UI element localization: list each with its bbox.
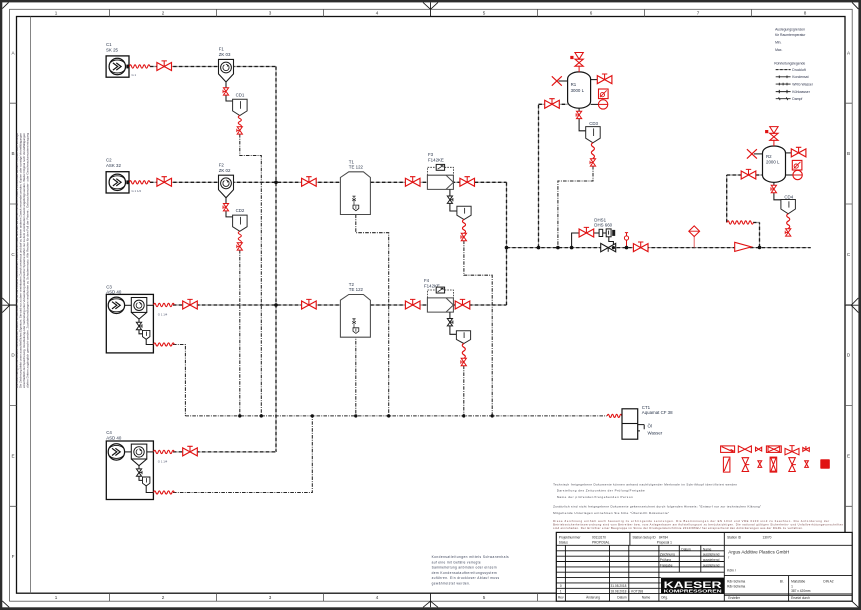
svg-text:E: E [11, 454, 14, 459]
wire row3 rise to header [506, 248, 508, 305]
svg-text:3: 3 [269, 595, 272, 600]
svg-text:Station Setup ID: Station Setup ID [633, 536, 657, 540]
valve CD4 outlet [785, 229, 791, 236]
wire F1 drain [226, 82, 233, 101]
wire air manifold vertical [275, 67, 277, 452]
svg-text:ausstehend: ausstehend [703, 558, 720, 562]
svg-text:Technisch freigegebene Dokumen: Technisch freigegebene Dokumente können … [553, 482, 737, 486]
svg-text:/: / [728, 555, 729, 559]
svg-text:G 1 1/4: G 1 1/4 [158, 312, 168, 316]
compressor C1 [106, 42, 137, 77]
legend muffler [821, 460, 829, 468]
flow flag symbol [689, 226, 700, 248]
node header row2/3 [505, 246, 509, 250]
svg-text:F2: F2 [219, 162, 225, 167]
svg-text:DIN A2: DIN A2 [823, 580, 833, 584]
wire F4 drain [450, 312, 457, 334]
svg-text:Freigabe: Freigabe [660, 563, 673, 567]
svg-text:Ersetzt durch: Ersetzt durch [791, 596, 810, 600]
left margin note column [15, 17, 31, 594]
node condensate T2 [354, 414, 357, 417]
wire row2 air line C2-F2-T1 [150, 181, 340, 183]
svg-text:ZK 03: ZK 03 [219, 52, 231, 57]
svg-text:CD4: CD4 [784, 195, 793, 200]
node manifold row2 [274, 181, 278, 185]
svg-text:WRG Wasser: WRG Wasser [792, 82, 813, 86]
node condensate CD1 [260, 414, 263, 417]
node header R1 riser [537, 246, 541, 250]
node condensate T1 [387, 414, 390, 417]
svg-text:Orig.: Orig. [661, 595, 668, 599]
KAESER logo [661, 578, 724, 594]
svg-text:2: 2 [162, 595, 165, 600]
wire R2 left stub [754, 153, 763, 155]
hose C2 outlet [129, 181, 150, 184]
line filter F4 [424, 278, 453, 312]
node manifold row3 [274, 303, 278, 307]
wire F4 condensate drop [463, 366, 465, 416]
node header sensor [625, 246, 629, 250]
svg-text:R1: R1 [571, 82, 577, 87]
svg-text:a_KOT398: a_KOT398 [628, 589, 644, 593]
svg-text:Betriebssicherheitsverordnung: Betriebssicherheitsverordnung sind vom B… [553, 523, 844, 527]
wire R1 right stub [591, 79, 598, 81]
svg-text:E: E [847, 454, 850, 459]
svg-text:dem Kondensataufbereitungssyst: dem Kondensataufbereitungssystem [432, 571, 497, 575]
svg-text:2000 L: 2000 L [766, 159, 780, 164]
node header bypass left [570, 246, 574, 250]
valve header after sensor [633, 242, 648, 252]
squiggle CD2 outlet [238, 231, 241, 243]
svg-text:Bl.: Bl. [780, 580, 784, 584]
valve row2 before T1 [302, 177, 317, 187]
svg-text:C4: C4 [106, 430, 112, 435]
valve F1 drain [223, 88, 229, 95]
svg-text:G 1: G 1 [132, 73, 137, 77]
safety valve R1 [570, 53, 583, 72]
wire R1 bottom drain [579, 108, 586, 131]
legend boxed valve h [766, 446, 781, 453]
closed connection X R1 [552, 76, 562, 85]
svg-text:1: 1 [791, 584, 793, 588]
valve F4 drain [447, 319, 453, 326]
svg-text:Proposal 1: Proposal 1 [657, 541, 672, 545]
valve R2 outlet [791, 147, 806, 157]
svg-text:0: 0 [560, 584, 562, 588]
node header R2 branch [758, 246, 762, 250]
svg-text:Auslegungsgrenzen: Auslegungsgrenzen [775, 27, 805, 31]
svg-text:Änderung: Änderung [586, 595, 600, 599]
svg-text:ausstehend: ausstehend [703, 563, 720, 567]
valve CD3 outlet [590, 159, 596, 166]
svg-text:1: 1 [560, 589, 562, 593]
node condensate F3 [491, 414, 494, 417]
wire F3 drain [450, 189, 457, 211]
wire row2 air line T1-F3-header [370, 181, 506, 183]
svg-text:00113170: 00113170 [592, 536, 606, 540]
svg-text:Name: Name [703, 547, 712, 551]
svg-text:Zusätzlich sind nicht freigege: Zusätzlich sind nicht freigegebene Dokum… [553, 504, 761, 508]
svg-text:R&I-Schema: R&I-Schema [727, 580, 745, 584]
svg-text:Die Zeichnung ist nur zu dem v: Die Zeichnung ist nur zu dem vereinbarte… [15, 133, 19, 388]
squiggle CD1 outlet [238, 116, 241, 128]
valve F3 drain outlet [461, 233, 467, 240]
svg-text:ASD 40: ASD 40 [106, 436, 122, 441]
svg-text:Kondensatleitungen mittels Sch: Kondensatleitungen mittels Schwanenhals [432, 555, 509, 559]
svg-text:CD1: CD1 [236, 92, 245, 97]
compressor C2 [106, 158, 141, 193]
wire T1 condensate drop [356, 215, 389, 416]
refrigeration dryer T2 [340, 282, 370, 337]
svg-text:ZK 02: ZK 02 [219, 168, 231, 173]
valve header shut-off (black) [601, 243, 616, 251]
squiggle CD3 outlet [591, 143, 594, 159]
wire CD3 condensate drop [558, 166, 593, 248]
svg-text:ASK 32: ASK 32 [106, 163, 121, 168]
node header CD3 [556, 246, 560, 250]
hose C3 air outlet [154, 303, 175, 306]
valve CD2 outlet [237, 243, 243, 250]
condensate drain CD4 [781, 195, 796, 214]
wire C4 condensate run [173, 416, 312, 493]
node header bypass right [612, 246, 615, 249]
svg-text:5: 5 [483, 595, 486, 600]
pressure gauge R1 [598, 100, 607, 109]
svg-text:für Raumtemperatur: für Raumtemperatur [775, 33, 806, 37]
legend valve v [742, 458, 749, 472]
legend small valve v2 [805, 461, 809, 468]
svg-text:C3: C3 [106, 284, 112, 289]
condensate drain CD3 [586, 121, 601, 143]
texts top section [559, 536, 772, 545]
legend valve v with actuator [789, 458, 796, 472]
valve after C2 [157, 177, 172, 187]
valve C4 air outlet [183, 446, 198, 456]
hose C4 air outlet [154, 450, 175, 453]
svg-text:Zeichnung: Zeichnung [660, 553, 675, 557]
svg-text:Aquamat CF 38: Aquamat CF 38 [642, 410, 673, 415]
svg-text:Name: Name [642, 595, 651, 599]
DHS1 unit [594, 217, 615, 236]
pressure gauge R2 [793, 170, 802, 179]
valve row3 after F4 [455, 299, 470, 309]
compressor C3 [106, 284, 153, 353]
svg-text:Min.: Min. [775, 41, 781, 45]
revision rows [558, 584, 668, 599]
wire main air header [507, 247, 811, 249]
svg-text:Projektnummer: Projektnummer [559, 536, 582, 540]
svg-text:auf eine mit Gefälle verlegte: auf eine mit Gefälle verlegte [432, 560, 481, 564]
valve R2 drain [771, 185, 777, 192]
svg-text:sind einzuhalten. Der Errichte: sind einzuhalten. Der Errichter einer Ba… [553, 526, 803, 530]
cyclone separator F2 [219, 162, 234, 198]
svg-text:Kühlwasser: Kühlwasser [792, 90, 810, 94]
svg-text:G 1 1/4: G 1 1/4 [132, 189, 142, 193]
oil-water separator CT1 [622, 405, 673, 439]
valve row3 before T2 [302, 299, 317, 309]
svg-text:dürfen Dritten zugänglich gema: dürfen Dritten zugänglich gemacht werden… [26, 133, 30, 388]
svg-text:Name der prüfenden/freigebende: Name der prüfenden/freigebenden Person [557, 495, 633, 499]
hose CT1 feed [607, 414, 622, 417]
svg-text:TE 122: TE 122 [349, 287, 364, 292]
valve R1 drain [576, 111, 582, 118]
wire CD1 condensate drop [240, 134, 261, 416]
wire R2 feed branch [727, 175, 763, 247]
valve DHS1 bypass [579, 227, 594, 237]
svg-text:Rev: Rev [558, 595, 564, 599]
wire row1 air line C1-F1-manifold [150, 66, 276, 68]
tank R2 [763, 146, 786, 182]
closed connection X R2 [747, 149, 757, 158]
drain pot F4 [456, 331, 470, 344]
wire R2 gauge stub [786, 174, 794, 176]
svg-text:Mitgeltende Unterlagen entnehm: Mitgeltende Unterlagen entnehmen Sie bit… [553, 511, 669, 515]
svg-text:Station ID: Station ID [727, 536, 742, 540]
hose R2 feed [727, 221, 753, 224]
legend small valve v [758, 461, 762, 468]
svg-text:DHS 660: DHS 660 [594, 222, 612, 227]
company cell [727, 549, 834, 600]
svg-text:2: 2 [162, 11, 165, 16]
svg-text:C2: C2 [106, 158, 112, 163]
hose C3 condensate outlet [154, 343, 175, 346]
safety valve R2 [765, 127, 778, 146]
svg-text:Druckluft: Druckluft [792, 68, 805, 72]
svg-text:18.08.2018: 18.08.2018 [611, 589, 627, 593]
svg-text:F142KE: F142KE [428, 157, 444, 162]
svg-text:gewährleistet werden.: gewährleistet werden. [432, 581, 471, 585]
valve C3 air outlet [183, 299, 198, 309]
svg-text:31.08.2018: 31.08.2018 [611, 584, 627, 588]
svg-text:5: 5 [483, 11, 486, 16]
svg-text:Status: Status [559, 541, 568, 545]
svg-text:KOMPRESSOREN: KOMPRESSOREN [664, 588, 722, 593]
svg-text:4: 4 [376, 595, 379, 600]
svg-text:R&I-Schema: R&I-Schema [727, 585, 745, 589]
svg-text:ausstehend: ausstehend [703, 553, 720, 557]
wire DHS1 bypass [572, 233, 614, 248]
node condensate CD2 [238, 414, 241, 417]
squiggle F4 drain [462, 344, 465, 359]
svg-text:6: 6 [590, 11, 593, 16]
svg-text:1: 1 [55, 595, 58, 600]
drain pot F3 [457, 206, 471, 219]
svg-text:F1: F1 [219, 47, 225, 52]
svg-text:7: 7 [697, 11, 700, 16]
wire row3 air line T2-F4-header [370, 304, 506, 306]
grid lines [556, 532, 852, 601]
legend boxed valve v [770, 457, 777, 472]
condensate installation note [432, 555, 509, 585]
approval table texts [660, 547, 720, 567]
valve R1 outlet [597, 74, 612, 84]
svg-text:Datum: Datum [617, 595, 627, 599]
valve row2 after T1 [405, 177, 420, 187]
svg-text:Argus Additive Plastics GmbH: Argus Additive Plastics GmbH [728, 549, 789, 554]
svg-text:Maßstäbe: Maßstäbe [791, 580, 805, 584]
wire C4 air line to manifold [173, 451, 276, 453]
wire CD2 condensate drop [239, 250, 241, 416]
svg-text:387 x 420mm: 387 x 420mm [791, 589, 811, 593]
svg-text:84784: 84784 [659, 536, 668, 540]
refrigeration dryer T1 [340, 159, 370, 214]
svg-text:3000 L: 3000 L [571, 88, 585, 93]
valve after C1 [157, 61, 172, 71]
line filter F3 [427, 152, 453, 189]
svg-text:Wasser: Wasser [648, 431, 663, 436]
svg-text:Kondensat: Kondensat [792, 75, 808, 79]
wire row3 air line C3-T2 [173, 304, 340, 306]
valve F4 drain outlet [461, 358, 467, 365]
legend valve h [738, 446, 751, 453]
svg-text:C1: C1 [106, 42, 112, 47]
wire R2 bottom drain [774, 182, 781, 200]
svg-text:Ersteller: Ersteller [728, 596, 741, 600]
wire R1 gauge stub [591, 103, 599, 105]
svg-text:Max.: Max. [775, 48, 782, 52]
legend valve h with actuator [785, 446, 799, 455]
svg-text:zuführen. Ein druckloser Ablau: zuführen. Ein druckloser Ablauf muss [432, 576, 500, 580]
legend slider damper h [721, 446, 735, 453]
valve row2 after F3 [460, 177, 475, 187]
valve F3 drain [447, 196, 453, 203]
wire R1 left stub [559, 80, 568, 82]
svg-text:Sammelleitung anbinden oder ei: Sammelleitung anbinden oder einzeln [432, 566, 497, 570]
svg-text:13070: 13070 [763, 536, 772, 540]
pressure switch R1 [599, 89, 609, 99]
valve R2 inlet [741, 169, 756, 179]
svg-text:4: 4 [376, 11, 379, 16]
svg-text:B: B [847, 151, 850, 156]
legend small valve h [756, 447, 762, 451]
svg-text:8: 8 [804, 11, 807, 16]
svg-text:1: 1 [55, 11, 58, 16]
condensate drain CD1 [233, 92, 248, 115]
wire row2 drop to header [506, 182, 508, 247]
node condensate C4 [311, 414, 314, 417]
legend slider damper v [723, 457, 730, 472]
sensor pressure pickup [624, 233, 628, 248]
wire F2 drain [226, 198, 233, 217]
wire condensate collecting header [185, 415, 607, 417]
wire R2 right stub [786, 152, 792, 154]
pressure switch R2 [792, 160, 802, 170]
legend small valve h with stem [803, 446, 810, 451]
valve F2 drain [223, 204, 229, 211]
node condensate F4 [462, 414, 465, 417]
valve row3 after T2 [405, 299, 420, 309]
valve CD1 outlet [237, 127, 243, 134]
svg-text:Diese Zeichnung enthält auch b: Diese Zeichnung enthält auch bauseitig z… [553, 519, 829, 523]
svg-text:TE 122: TE 122 [349, 165, 364, 170]
squiggle F3 drain [462, 220, 465, 234]
svg-text:Dampf: Dampf [792, 97, 802, 101]
svg-text:Rohrleitungslegende: Rohrleitungslegende [774, 62, 805, 66]
svg-text:Datum: Datum [681, 547, 691, 551]
cyclone separator F1 [219, 47, 234, 83]
svg-text:SK 25: SK 25 [106, 47, 119, 52]
svg-text:R2: R2 [766, 154, 772, 159]
condensate drain CD2 [233, 208, 248, 231]
svg-text:3: 3 [269, 11, 272, 16]
tank R1 [568, 72, 591, 108]
svg-text:Darstellung des Zeitpunktes de: Darstellung des Zeitpunktes der Prüfung/… [557, 489, 645, 493]
svg-text:PROPOSAL: PROPOSAL [592, 541, 610, 545]
squiggle CD4 outlet [787, 214, 790, 229]
svg-text:G 1 1/4: G 1 1/4 [158, 459, 168, 463]
hose C4 condensate outlet [154, 491, 175, 494]
compressor C4 [106, 430, 153, 499]
svg-text:Köln /: Köln / [727, 568, 736, 572]
wire T2 condensate drop [355, 334, 357, 416]
valve R1 inlet [545, 99, 560, 109]
wire F3 condensate drop [464, 241, 492, 416]
check valve on header [735, 242, 752, 251]
wire C3 condensate drop [173, 345, 185, 416]
svg-text:Prüfung: Prüfung [660, 558, 671, 562]
svg-text:F: F [12, 554, 15, 559]
svg-text:CD3: CD3 [589, 121, 598, 126]
svg-text:Öl: Öl [648, 423, 652, 428]
wire R1 feed riser [539, 104, 568, 247]
svg-text:CD2: CD2 [236, 208, 245, 213]
hose C1 outlet [129, 65, 150, 68]
